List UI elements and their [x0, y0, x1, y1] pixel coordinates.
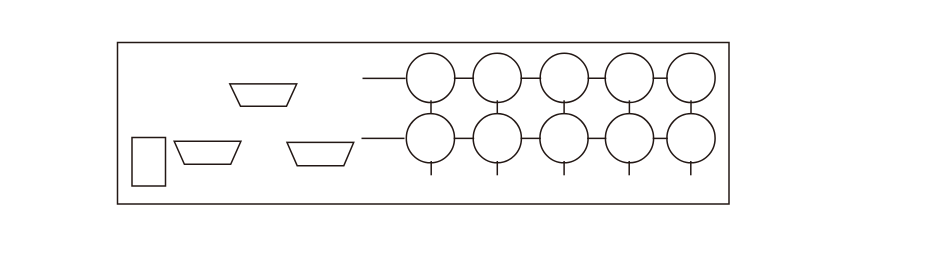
wire B3-B4: [587, 137, 606, 139]
wire bottom-left feed: [362, 137, 405, 139]
hopper trapezoid T3: [287, 142, 354, 165]
wire B1-B2: [454, 137, 475, 139]
roller circle A2: [473, 53, 521, 102]
roller circle A3: [540, 53, 588, 102]
wire B4-B5: [653, 137, 668, 139]
wire B2 lower stub: [496, 161, 498, 175]
roller circle B3: [540, 114, 588, 163]
roller circle B5: [667, 114, 715, 163]
roller circle B1: [406, 114, 454, 163]
wire A3-B3 vertical: [563, 100, 565, 114]
hopper trapezoid T1: [230, 84, 297, 106]
wire B2-B3: [520, 137, 541, 139]
wire A1-B1 vertical: [430, 100, 432, 114]
wire A5-B5 vertical: [690, 100, 692, 114]
wire B5 lower stub: [690, 161, 692, 175]
wire A1-A2: [454, 77, 474, 79]
wire A2-B2 vertical: [496, 100, 498, 114]
wire B1 lower stub: [430, 161, 432, 175]
wire B3 lower stub: [563, 161, 565, 175]
wire A4-B4 vertical: [628, 100, 630, 114]
component box B1: [132, 138, 166, 187]
roller circle A1: [407, 53, 455, 102]
wire B4 lower stub: [628, 161, 630, 175]
enclosure frame: [118, 43, 730, 205]
wire A2-A3: [520, 77, 541, 79]
wire top-left feed: [363, 77, 406, 79]
roller circle A5: [667, 53, 715, 102]
wire A4-A5: [652, 77, 668, 79]
wire A3-A4: [587, 77, 606, 79]
roller circle B4: [605, 114, 653, 163]
hopper trapezoid T2: [174, 141, 241, 164]
roller circle B2: [473, 114, 521, 163]
roller circle A4: [605, 53, 653, 102]
